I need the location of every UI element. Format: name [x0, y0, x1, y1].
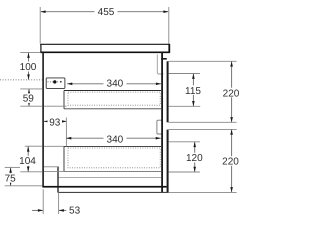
- plinth leg: [57, 167, 59, 193]
- cabinet bottom panel: [42, 186, 166, 188]
- svg-text:340: 340: [107, 79, 124, 90]
- dimension 93: [44, 117, 67, 129]
- right ref line 115 top: [169, 73, 200, 75]
- extension line right for 455: [168, 7, 170, 44]
- lower drawer front: [167, 130, 169, 193]
- svg-text:104: 104: [19, 156, 36, 167]
- right ref line 120 bottom: [169, 171, 200, 173]
- upper drawer box: [64, 91, 161, 109]
- left ref line 59 top: [20, 88, 42, 90]
- dimension 104: [18, 146, 38, 171]
- dimension 340 upper: [67, 78, 161, 90]
- dimension 75: [3, 168, 18, 186]
- right ref line 115 bottom: [169, 105, 201, 107]
- dimension 220 lower: [221, 130, 241, 193]
- left ref line 59 bottom: [20, 105, 42, 107]
- extension line left for 455: [39, 7, 41, 44]
- svg-text:455: 455: [98, 7, 115, 18]
- left ref line top: [20, 51, 40, 53]
- dimension 100: [19, 53, 38, 80]
- left ref line 104 bottom: [20, 171, 42, 173]
- right ref line 220l bottom: [169, 191, 237, 193]
- svg-text:75: 75: [5, 174, 17, 185]
- top step rail: [161, 58, 167, 60]
- lower drawer box: [64, 146, 161, 171]
- svg-text:340: 340: [107, 135, 124, 146]
- left ref line rail: [5, 166, 20, 168]
- plinth bottom line: [59, 191, 169, 193]
- slide bracket upper: [46, 78, 65, 89]
- dimension 340 lower: [66, 134, 161, 146]
- dimension 115: [185, 74, 202, 107]
- svg-text:100: 100: [20, 62, 37, 73]
- left ref line bottom: [5, 185, 43, 187]
- right ref line 220u bottom: [169, 121, 237, 123]
- dimension 220 upper: [221, 61, 241, 122]
- right ref line 120 top: [169, 141, 200, 143]
- dimension 455: [40, 7, 168, 18]
- right ref line 220u top: [169, 60, 237, 62]
- left ref line 104 top: [25, 145, 43, 147]
- dimension 59: [21, 89, 36, 106]
- interior floor line: [59, 176, 161, 178]
- lower drawer hidden outline: [68, 148, 160, 168]
- dimension 120: [185, 142, 204, 172]
- cabinet right wall: [161, 52, 163, 192]
- svg-text:59: 59: [23, 94, 35, 105]
- dimension 53: [32, 205, 81, 216]
- inter-drawer bracket: [157, 120, 163, 134]
- upper drawer hidden outline: [68, 92, 160, 105]
- upper drawer front: [167, 61, 169, 122]
- extension line x43 bottom: [42, 189, 44, 214]
- right ref line 220l top: [169, 128, 237, 130]
- svg-text:220: 220: [223, 88, 240, 99]
- svg-text:115: 115: [185, 86, 201, 97]
- hidden dotted line left: [0, 79, 42, 81]
- countertop slab: [40, 44, 170, 53]
- svg-text:120: 120: [186, 153, 203, 164]
- svg-text:53: 53: [69, 205, 81, 216]
- extension line x58 bottom: [58, 193, 60, 214]
- extension line x66: [65, 118, 67, 147]
- svg-text:93: 93: [49, 118, 61, 129]
- top slide bracket: [157, 55, 163, 75]
- svg-text:220: 220: [222, 157, 239, 168]
- cabinet left wall: [42, 52, 44, 187]
